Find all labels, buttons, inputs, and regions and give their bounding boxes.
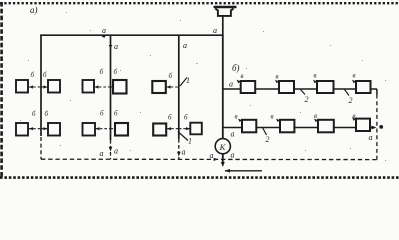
branch wire F3-B5 (167, 128, 179, 130)
machine box R2-4 (356, 119, 370, 131)
svg-text:а: а (102, 26, 106, 35)
svg-text:а: а (100, 149, 104, 158)
svg-text:а: а (369, 133, 373, 142)
svg-text:1: 1 (186, 76, 190, 85)
page border dotted top (0, 2, 399, 4)
branch wire F3-B6 (179, 128, 191, 130)
svg-text:2: 2 (305, 95, 309, 104)
svg-text:2: 2 (266, 135, 270, 144)
svg-text:б: б (168, 114, 172, 122)
wire feeder F1 (40, 35, 42, 137)
machine box B3 (83, 123, 96, 136)
page border dotted bottom (0, 176, 399, 179)
page border dashed left (0, 2, 3, 177)
svg-text:а: а (183, 41, 187, 50)
svg-text:б: б (184, 114, 188, 122)
wire main feeder (222, 35, 224, 138)
wire feeder F2 (110, 35, 112, 140)
svg-text:б: б (32, 110, 36, 118)
machine box A2 (48, 80, 60, 93)
paper specks (20, 12, 386, 161)
wire below K (222, 154, 224, 163)
svg-text:а: а (231, 130, 235, 139)
dimension arrow bottom (225, 170, 262, 172)
svg-text:б: б (100, 68, 104, 76)
machine box A3 (83, 80, 95, 93)
svg-text:в: в (353, 72, 356, 80)
svg-text:а: а (114, 147, 118, 156)
machine box R2-2 (280, 120, 294, 133)
row 1 wire part b (223, 88, 377, 90)
arrow below K (221, 162, 225, 167)
arrow at row2 end (372, 126, 377, 130)
motor K circle (215, 139, 230, 154)
wire feeder F1 dashed bottom (40, 137, 42, 159)
leader and label 2 row1 b (345, 90, 350, 96)
branch wire F2-B3 (95, 128, 110, 130)
svg-text:а: а (114, 42, 118, 51)
machine box R2-1 (242, 120, 256, 133)
machine box B2 (48, 123, 60, 136)
branch wire F1-B2 (41, 128, 48, 130)
transformer bar (214, 6, 237, 8)
svg-text:а: а (231, 151, 235, 160)
svg-text:б: б (114, 110, 118, 118)
svg-text:в: в (276, 73, 279, 81)
svg-text:а: а (213, 26, 217, 35)
leader and label 1 row B (178, 132, 188, 141)
machine box B5 (153, 124, 166, 136)
branch wire F1-A1 (29, 86, 42, 88)
branch wire F2-B4 (111, 128, 116, 130)
branch wire F2-A4 (111, 86, 114, 88)
bottom dashed return wire (41, 158, 377, 160)
svg-text:в: в (271, 113, 274, 121)
svg-text:а: а (229, 80, 233, 89)
row 2 wire part b (223, 127, 375, 129)
wire feeder F3 dashed bottom (178, 139, 180, 159)
leader and label 1 row A (180, 78, 187, 87)
svg-text:в: в (241, 72, 244, 80)
svg-text:б: б (43, 71, 47, 79)
wire feeder F2 dashed bottom (110, 140, 112, 159)
machine box A4 (113, 80, 127, 94)
svg-text:б: б (31, 71, 35, 79)
svg-text:б: б (100, 110, 104, 118)
machine box B6 (190, 123, 202, 135)
svg-text:а): а) (30, 5, 38, 15)
svg-text:б: б (45, 110, 49, 118)
machine box R1-1 (241, 81, 256, 93)
svg-text:2: 2 (349, 96, 353, 105)
wire trunk horizontal (40, 34, 223, 36)
leader and label 2 row2 (263, 128, 267, 136)
junction dot row2 end (379, 125, 383, 129)
svg-text:б: б (169, 72, 173, 80)
machine box B1 (16, 123, 28, 136)
svg-text:б): б) (232, 63, 240, 73)
branch wire F1-A2 (41, 86, 48, 88)
arrow on F2 (109, 147, 113, 152)
leader and label 2 row1 a (301, 90, 306, 95)
arrow on dashed wire left of K (214, 158, 218, 161)
svg-text:1: 1 (188, 137, 192, 146)
svg-text:в: в (235, 113, 238, 121)
branch wire F1-B1 (29, 128, 42, 130)
machine box A1 (16, 80, 28, 93)
corner down right (376, 89, 378, 95)
machine box B4 (115, 123, 128, 136)
branch wire F2-A3 (94, 86, 110, 88)
svg-text:а: а (182, 148, 186, 157)
machine box R1-2 (279, 81, 294, 93)
machine box R2-3 (318, 120, 334, 133)
arrow on F3 (177, 152, 181, 157)
machine box A5 (152, 81, 166, 93)
wire stem from transformer (222, 16, 224, 36)
transformer cup (215, 9, 233, 16)
wire feeder F3 (178, 35, 180, 139)
svg-text:а: а (210, 151, 214, 160)
machine box R1-4 (356, 81, 371, 93)
machine box R1-3 (317, 81, 334, 93)
branch wire F3-A5 (166, 86, 179, 88)
dashed border right part b (376, 95, 378, 160)
svg-text:в: в (314, 72, 317, 80)
svg-text:б: б (114, 68, 118, 76)
